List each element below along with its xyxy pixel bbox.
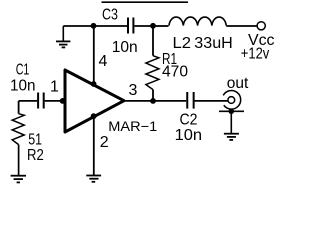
svg-text:L2: L2	[173, 35, 192, 52]
ground G2	[86, 176, 101, 182]
wire node A to C3	[93, 25, 127, 27]
svg-text:R2: R2	[27, 147, 44, 164]
svg-text:1: 1	[50, 79, 59, 96]
wire jack to G4	[230, 111, 232, 133]
svg-text:470: 470	[162, 64, 188, 81]
wire R2 to G3	[18, 145, 20, 176]
connector J1 ground plate	[219, 110, 244, 112]
capacitor C1	[38, 93, 44, 109]
svg-text:out: out	[227, 75, 249, 92]
resistor R2	[12, 114, 24, 145]
node C junction	[150, 98, 156, 104]
inductor L2	[169, 17, 226, 26]
pin 4 junction	[91, 81, 97, 87]
node A junction	[91, 23, 97, 29]
wire pin 2	[93, 116, 95, 175]
wire R1 top	[152, 26, 154, 56]
terminal Vcc	[257, 22, 265, 30]
wire R2 drop	[18, 101, 20, 114]
ground G1 top-left	[56, 26, 70, 47]
svg-text:10n: 10n	[10, 77, 36, 94]
node B junction	[150, 23, 156, 29]
wire input to C1	[19, 100, 37, 102]
svg-text:10n: 10n	[175, 127, 203, 144]
ground G3	[11, 176, 26, 183]
wire L2 to Vcc terminal	[226, 25, 257, 27]
wire C1 to pin 1	[45, 100, 65, 102]
svg-text:+12v: +12v	[241, 46, 269, 63]
pin 1 junction	[60, 98, 66, 104]
svg-text:C3: C3	[102, 7, 118, 24]
wire C2 to output jack	[195, 100, 228, 102]
capacitor C3	[128, 18, 133, 34]
pin 2 junction	[91, 113, 97, 119]
wire top border segment	[102, 1, 189, 3]
svg-text:33uH: 33uH	[194, 35, 233, 52]
resistor R1	[146, 56, 159, 90]
svg-text:C2: C2	[180, 112, 198, 129]
wire R1 bottom	[152, 90, 154, 101]
connector J1 output inner pin	[228, 97, 235, 104]
svg-text:MAR−1: MAR−1	[108, 118, 157, 134]
svg-text:2: 2	[100, 134, 109, 151]
svg-text:4: 4	[99, 53, 108, 70]
svg-text:10n: 10n	[112, 39, 138, 56]
svg-text:3: 3	[129, 82, 138, 99]
junction on ground plate	[229, 109, 235, 115]
wire pin 3 to C2	[124, 100, 186, 102]
wire pin 4	[93, 26, 95, 84]
wire G1 to node A	[63, 25, 93, 27]
amplifier U1 MAR-1	[65, 70, 124, 132]
wire C3 to node B	[134, 25, 153, 27]
connector J1 output shield arc	[223, 91, 240, 110]
svg-text:C1: C1	[16, 62, 30, 79]
wire node B to L2	[153, 25, 169, 27]
ground G4	[224, 134, 239, 140]
capacitor C2	[187, 92, 193, 109]
